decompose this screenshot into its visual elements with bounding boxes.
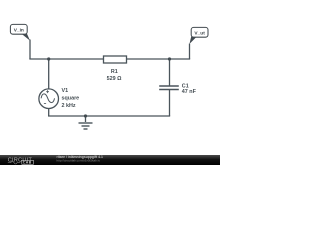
svg-text:square: square bbox=[62, 95, 80, 101]
svg-text:LAB: LAB bbox=[23, 161, 32, 165]
resistor R1 bbox=[104, 56, 127, 82]
wire C1 branch bottom bbox=[169, 90, 171, 116]
watermark bar bbox=[0, 155, 220, 165]
ground bbox=[79, 116, 93, 129]
svg-text:47 nF: 47 nF bbox=[182, 89, 197, 95]
node junction dot top-right bbox=[168, 57, 171, 60]
svg-text:V_ut: V_ut bbox=[194, 30, 205, 36]
svg-text:529 Ω: 529 Ω bbox=[107, 76, 122, 82]
node flag V_in bbox=[10, 24, 30, 40]
wire top horizontal right bbox=[127, 58, 191, 60]
wire bottom horizontal bbox=[48, 115, 170, 117]
voltage source V1 bbox=[39, 88, 79, 109]
node flag V_ut bbox=[189, 27, 208, 44]
wire top horizontal left bbox=[29, 58, 103, 60]
svg-text:2 kHz: 2 kHz bbox=[62, 103, 76, 109]
wire V_in drop bbox=[29, 40, 31, 60]
wire V1 branch top bbox=[48, 59, 50, 89]
svg-text:http://circuitlab.com/c6z5t5ka: http://circuitlab.com/c6z5t5kab.tv bbox=[57, 159, 101, 163]
node junction dot top-left bbox=[47, 57, 50, 60]
svg-text:V1: V1 bbox=[62, 88, 69, 94]
svg-text:R1: R1 bbox=[111, 69, 118, 75]
wire V_ut drop bbox=[189, 44, 191, 59]
capacitor C1 bbox=[159, 83, 196, 95]
wire V1 branch bottom bbox=[48, 108, 50, 116]
svg-text:V_in: V_in bbox=[14, 27, 24, 33]
node junction dot ground bbox=[84, 114, 87, 117]
wire C1 branch top bbox=[169, 59, 171, 86]
